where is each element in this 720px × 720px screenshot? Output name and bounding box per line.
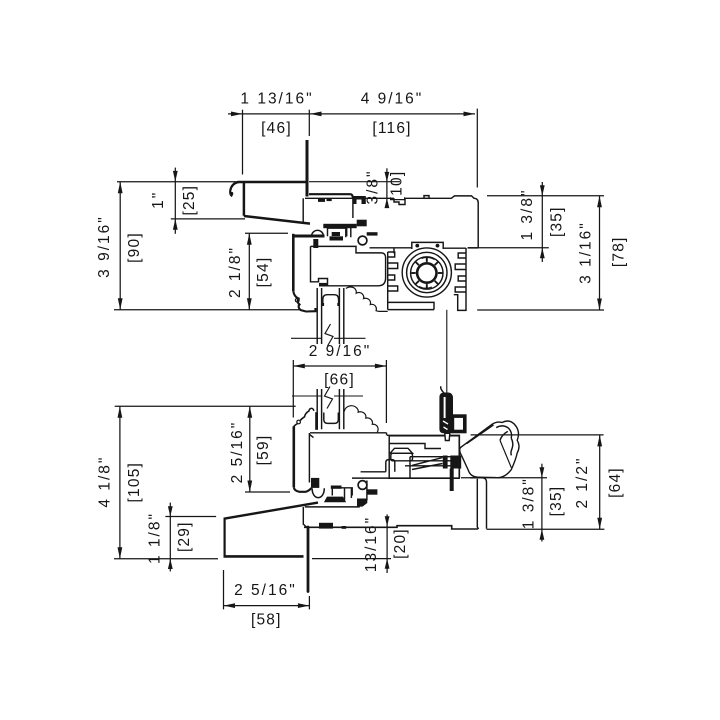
glass break mark upper	[325, 324, 333, 346]
frame bottom chamber	[303, 507, 306, 527]
svg-text:[105]: [105]	[126, 462, 143, 502]
interlock bracket	[328, 228, 347, 236]
keeper top hook	[441, 386, 444, 393]
frame top edge behind sash	[361, 471, 386, 473]
handle lever	[460, 421, 519, 478]
svg-text:[20]: [20]	[392, 528, 409, 559]
dimension 2 1/8 [54] vertical	[245, 233, 288, 309]
glass spacer lower	[324, 413, 339, 424]
sealant dune right	[346, 287, 388, 311]
roller top bracket	[412, 242, 443, 249]
roller wheel circles	[402, 248, 451, 297]
svg-text:1": 1"	[150, 191, 167, 209]
sash interface: black T	[311, 478, 319, 488]
svg-text:[10]: [10]	[389, 171, 406, 202]
keeper body black	[439, 393, 453, 434]
bulb gasket circle lower	[358, 481, 367, 490]
dimension 13/16 [20] vertical bottom-center	[312, 514, 391, 573]
head drip-cap flashing (thick)	[230, 182, 310, 224]
svg-text:[66]: [66]	[324, 372, 355, 389]
dimension 2 5/16 [58] horizontal bottom	[224, 570, 310, 609]
break line lower	[292, 395, 363, 397]
housing top connectors	[370, 247, 467, 249]
interlock nub black	[367, 232, 378, 235]
sash box right portion	[387, 435, 459, 478]
glass spacer upper	[323, 295, 339, 306]
jamb lower (thick)	[292, 426, 295, 487]
dimension 1 3/8 [35] vertical bottom-right	[461, 464, 604, 542]
svg-text:4 9/16": 4 9/16"	[361, 91, 424, 108]
svg-text:[25]: [25]	[181, 185, 198, 216]
svg-text:2 5/16": 2 5/16"	[229, 421, 246, 484]
lock bolt black	[443, 456, 448, 469]
svg-text:2 9/16": 2 9/16"	[309, 343, 372, 360]
guide mushroom	[386, 460, 395, 472]
glazing seal black	[319, 283, 327, 287]
extension line through head	[309, 181, 400, 183]
dimension 1 13/16 / 4 9/16 horizontal top	[228, 109, 477, 188]
sealant dune right lower	[344, 406, 378, 433]
dimension 2 5/16 [59] vertical	[245, 406, 290, 492]
dimension 2 1/2 [64] vertical right	[471, 435, 604, 529]
dimension 3 1/16 [78] vertical right	[477, 196, 604, 310]
nailing fin vertical	[306, 140, 309, 197]
svg-text:[35]: [35]	[548, 206, 565, 237]
roller spline teeth	[411, 257, 442, 288]
nub black lower	[367, 489, 378, 494]
frame head inner web	[352, 198, 354, 218]
dimension 1 1/8 [29] vertical	[165, 503, 216, 572]
dimension 3/8 [10] vertical small	[385, 168, 390, 208]
roller housing right bracket	[465, 248, 467, 311]
svg-text:[29]: [29]	[176, 521, 193, 552]
svg-text:[78]: [78]	[610, 236, 627, 267]
svg-text:3 9/16": 3 9/16"	[96, 215, 113, 278]
jamb dome and gasket wave (left)	[309, 408, 314, 411]
sash corner boot black	[357, 499, 367, 507]
keeper loop square	[452, 416, 464, 431]
svg-text:[90]: [90]	[126, 232, 143, 263]
svg-text:1 1/8": 1 1/8"	[147, 512, 164, 564]
svg-text:1 13/16": 1 13/16"	[240, 91, 313, 108]
sill riser prong	[307, 527, 310, 592]
frame head upper lip	[309, 194, 353, 198]
sash left edge	[308, 433, 310, 483]
svg-text:[58]: [58]	[251, 611, 282, 628]
lock pin black	[450, 469, 454, 492]
guide line from roller down to keeper	[446, 310, 448, 393]
glass panes lower	[317, 389, 344, 429]
break line upper	[291, 337, 366, 339]
svg-text:[59]: [59]	[255, 435, 272, 466]
bulb gasket circle	[358, 236, 367, 245]
svg-text:4 1/8": 4 1/8"	[96, 456, 113, 508]
sash cap black	[357, 220, 367, 227]
weatherstrip black strips	[324, 497, 346, 503]
sill flashing (thick)	[224, 503, 318, 519]
svg-text:3/8": 3/8"	[365, 169, 382, 204]
svg-text:[54]: [54]	[255, 257, 272, 288]
svg-text:3 1/16": 3 1/16"	[578, 221, 595, 284]
jamb (thick)	[292, 234, 295, 291]
svg-text:2 5/16": 2 5/16"	[234, 582, 297, 599]
roller housing left bracket	[387, 252, 389, 310]
svg-text:1 3/8": 1 3/8"	[520, 477, 537, 529]
interlock arch	[312, 230, 324, 236]
weatherstrip bracket	[332, 488, 352, 496]
jamb weatherstrip bar black	[295, 235, 325, 238]
glide gasket roof	[390, 448, 413, 453]
svg-text:[46]: [46]	[261, 120, 292, 137]
sash top edge	[310, 432, 387, 434]
svg-text:13/16": 13/16"	[363, 516, 380, 572]
svg-text:2 1/2": 2 1/2"	[574, 457, 591, 509]
svg-text:[116]: [116]	[372, 120, 411, 137]
frame head profile top edge	[305, 197, 394, 199]
dimension 1" [25] vertical	[171, 168, 245, 234]
svg-text:1 3/8": 1 3/8"	[519, 189, 536, 241]
head retainer cap black	[353, 196, 366, 204]
keeper foot	[445, 433, 450, 440]
dimension 3 9/16 [90] vertical left	[114, 182, 299, 310]
svg-text:2 1/8": 2 1/8"	[227, 246, 244, 298]
svg-text:[35]: [35]	[548, 486, 565, 517]
clip blocks under head	[318, 199, 325, 202]
lock body	[389, 436, 459, 479]
glass panes upper	[317, 288, 344, 344]
glass edge seal black	[315, 412, 318, 430]
frame right pocket	[477, 479, 478, 529]
dimension 2 9/16 [66] horizontal middle	[293, 360, 386, 423]
frame weep tabs black	[319, 523, 333, 529]
sash top rail outline	[311, 246, 386, 257]
svg-text:[64]: [64]	[607, 467, 624, 498]
dimension 4 1/8 [105] vertical bottom-left	[114, 406, 296, 559]
sash interface arch	[312, 488, 324, 497]
weatherstrip bar black	[323, 224, 356, 228]
dimension 1 3/8 [35] vertical top-right	[468, 182, 604, 262]
glass break mark lower	[325, 387, 333, 409]
frame right lobe bottom	[468, 247, 479, 249]
